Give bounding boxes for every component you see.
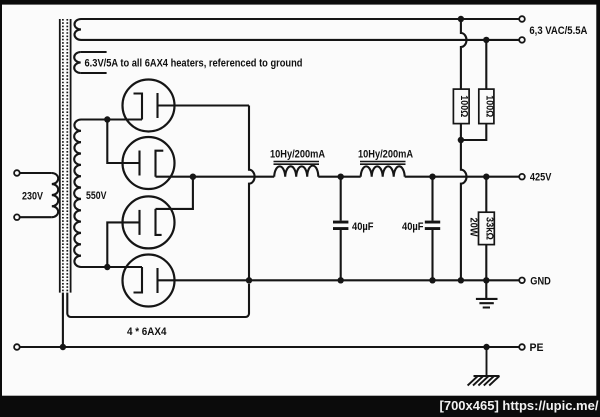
inductor L2 core bars <box>360 161 406 163</box>
svg-text:6,3 VAC/5.5A: 6,3 VAC/5.5A <box>529 25 587 37</box>
junction R1 top on line A <box>458 16 464 22</box>
transformer heater winding 6.3V/5A top stub wire <box>81 51 107 53</box>
wire tube V3 cathode up to B+ rail <box>156 177 193 209</box>
junction 550V bottom tap <box>104 264 110 270</box>
tube V1 cathode <box>134 94 143 120</box>
tube V3 cathode <box>156 209 162 235</box>
earth ground symbol at GND <box>476 280 498 307</box>
wire from core-left down to PE rail <box>62 293 64 347</box>
wire B+ rail to 425V terminal <box>405 176 520 178</box>
wire 550V bottom tap to tube V4 cathode <box>81 266 142 268</box>
svg-text:GND: GND <box>530 275 551 287</box>
junction R1R2 common <box>458 137 464 143</box>
svg-text:10Hy/200mA: 10Hy/200mA <box>270 149 325 161</box>
resistor R2 100R bottom lead <box>461 124 486 140</box>
transformer core left solid line <box>59 19 61 293</box>
transformer heater winding 6.3V/5A bottom stub wire <box>81 72 107 74</box>
junction core wire on PE rail <box>60 344 66 350</box>
capacitor C1 40uF leads <box>340 177 342 221</box>
wire 230V primary top lead <box>20 172 52 174</box>
svg-text:[700x465] https://upic.me/: [700x465] https://upic.me/ <box>440 398 599 413</box>
terminal 6.3VAC A <box>519 16 525 22</box>
inductor L1 10Hy/200mA <box>274 166 318 177</box>
terminals <box>14 16 525 350</box>
svg-text:230V: 230V <box>22 191 44 203</box>
terminal PE <box>519 344 525 350</box>
resistor R2 100R body <box>479 89 494 124</box>
junction C2 top <box>429 174 435 180</box>
wire 230V primary bottom lead <box>20 216 52 218</box>
resistor boxes <box>453 89 494 245</box>
tube V3 envelope <box>123 196 175 248</box>
resistor R1 100R bottom lead <box>460 124 462 140</box>
transformer core right dotted line <box>66 19 68 293</box>
resistor R1 100R top lead with hop over 6.3VAC line B <box>461 19 467 89</box>
wire tube V2 cathode to B+ rail <box>156 176 275 178</box>
svg-text:4 * 6AX4: 4 * 6AX4 <box>127 326 167 338</box>
svg-text:100Ω: 100Ω <box>458 95 470 117</box>
capacitor plates <box>333 221 440 230</box>
junction R3 bottom on GND rail <box>483 277 489 283</box>
chassis ground symbol at PE <box>468 347 500 386</box>
svg-text:40µF: 40µF <box>402 221 424 233</box>
junction negative bus on GND rail <box>246 277 252 283</box>
wire tube V4 plate to GND rail <box>158 279 520 281</box>
junction C1 bottom <box>338 277 344 283</box>
junction C1 top <box>338 174 344 180</box>
tube V4 plate <box>156 268 158 293</box>
terminal 425V <box>519 174 525 180</box>
transformer 550V secondary winding <box>74 119 81 267</box>
resistor R3 33k top lead <box>485 177 487 213</box>
wire tap bus up to tube V3 plate <box>107 222 139 267</box>
svg-text:20W: 20W <box>467 218 479 237</box>
capacitor C2 40uF leads <box>431 177 433 221</box>
wire from core-right down then right to negative bus <box>67 284 249 317</box>
wire B+ rail segment between chokes <box>318 176 360 178</box>
transformer core left dotted line <box>62 19 64 293</box>
tube V4 cathode <box>134 267 143 293</box>
svg-text:33kΩ: 33kΩ <box>483 217 495 240</box>
resistor R3 33k body <box>479 212 495 244</box>
terminal PE left <box>14 344 20 350</box>
capacitor C2 plates <box>425 221 440 224</box>
junction C2 bottom <box>429 277 435 283</box>
junction chassis stub on PE rail <box>483 344 489 350</box>
svg-text:550V: 550V <box>86 190 107 202</box>
svg-text:10Hy/200mA: 10Hy/200mA <box>358 149 413 161</box>
transformer 6.3VAC secondary winding <box>74 19 81 40</box>
inductor L1 core bars <box>274 161 320 163</box>
resistor R3 33k bottom lead <box>485 245 487 281</box>
wire 6.3VAC line A <box>81 18 519 20</box>
svg-text:100Ω: 100Ω <box>483 95 495 117</box>
wire R1R2 common down to GND with hop over B+ rail <box>461 140 467 280</box>
tube V1 plate <box>156 93 158 118</box>
junction R1R2 common on GND rail <box>458 277 464 283</box>
wire tap bus down to tube V2 plate <box>107 120 139 164</box>
inductor L2 10Hy/200mA <box>361 166 405 176</box>
junction R3 top on 425V rail <box>483 174 489 180</box>
junction R2 top on line B <box>483 37 489 43</box>
transformer heater winding 6.3V/5A <box>74 52 81 73</box>
tube V1 envelope <box>123 80 175 132</box>
wire tube V1 plate to negative bus <box>158 104 250 106</box>
svg-text:6.3V/5A to all 6AX4 heaters, r: 6.3V/5A to all 6AX4 heaters, referenced … <box>85 57 303 69</box>
terminal 6.3VAC B <box>519 37 525 43</box>
wire PE rail <box>20 346 520 348</box>
terminal 230V top <box>14 170 20 176</box>
wire 6.3VAC line B <box>81 39 519 41</box>
resistor R1 100R body <box>453 89 469 124</box>
tube V3 plate <box>138 210 140 235</box>
junction V3 cathode on B+ rail <box>190 174 196 180</box>
transformer core right solid line <box>70 19 72 293</box>
capacitor C1 plates <box>333 221 348 224</box>
transformer 230V primary winding <box>52 173 58 217</box>
terminal GND <box>519 278 525 284</box>
resistor R2 100R top lead with hop over 6.3VAC line B <box>485 40 487 89</box>
tube V2 envelope <box>123 137 175 189</box>
svg-text:40µF: 40µF <box>352 221 374 233</box>
tube V2 cathode <box>156 151 164 177</box>
svg-text:425V: 425V <box>530 172 552 184</box>
terminal 230V bottom <box>14 214 20 220</box>
junction 550V top tap <box>104 116 110 122</box>
tube V2 plate <box>138 151 140 176</box>
wire 550V top tap to tube V1 cathode <box>81 118 142 120</box>
wire negative bus vertical with hop over B+ rail <box>249 106 255 281</box>
tube V4 envelope <box>123 255 175 307</box>
svg-text:PE: PE <box>530 342 544 354</box>
